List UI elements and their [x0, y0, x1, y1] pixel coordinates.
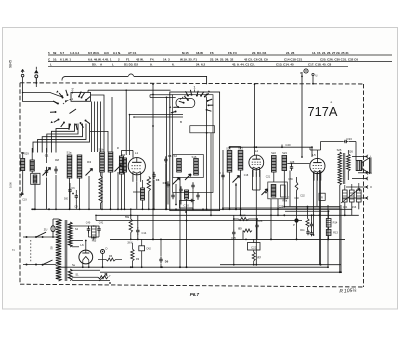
- svg-text:69: 69: [53, 51, 57, 55]
- boxres R13: [326, 230, 338, 236]
- svg-text:10.: 10.: [53, 58, 57, 62]
- band switch 2 rotary contacts: [50, 87, 91, 130]
- cap C32: [310, 231, 313, 236]
- band switch 1 rotary contacts: [169, 90, 213, 124]
- svg-text:F1: F1: [126, 58, 130, 62]
- speaker wires: [340, 150, 349, 272]
- AVC resistor tall: [99, 172, 102, 209]
- svg-text:R7: R7: [258, 256, 262, 260]
- svg-text:L6: L6: [80, 243, 84, 247]
- svg-text:S29: S29: [24, 153, 29, 156]
- svg-text:14. 3: 14. 3: [163, 58, 170, 62]
- coupling coil S29: [21, 152, 30, 194]
- parts table rule 2: [48, 61, 392, 63]
- avc wires: [233, 215, 258, 265]
- rectifier tube L6: [79, 240, 93, 268]
- svg-text:1000: 1000: [9, 182, 13, 188]
- svg-text:24. 6.2: 24. 6.2: [196, 62, 206, 66]
- terminal u top right: [304, 69, 318, 85]
- chassis dashed border right: [363, 84, 365, 287]
- svg-text:C17. C18. 45. C8: C17. C18. 45. C8: [308, 62, 332, 66]
- hum filter cap C41: [97, 222, 104, 234]
- chassis dashed border left: [19, 83, 21, 284]
- switch 2 wiring stair bundle: [33, 124, 90, 153]
- label P terminal: [300, 71, 302, 75]
- R9a box: [281, 185, 288, 203]
- coil S16: [192, 155, 199, 175]
- oscillator unit rounded box: [176, 98, 195, 107]
- resistor R5: [238, 228, 252, 233]
- resistor R9: [131, 243, 140, 267]
- osc cap C16: [196, 192, 199, 199]
- svg-text:C40: C40: [86, 222, 91, 225]
- svg-text:S1b: S1b: [99, 148, 104, 152]
- cap C31: [306, 230, 309, 235]
- svg-text:C36: C36: [288, 178, 293, 181]
- osc cap C15: [179, 186, 182, 193]
- svg-text:S1: S1: [75, 273, 79, 277]
- osc coil small: [185, 190, 189, 199]
- vt drops: [345, 183, 359, 215]
- osc trimmer 2: [185, 174, 191, 180]
- L5 top wire: [310, 147, 317, 158]
- L5 leg drops: [314, 172, 321, 265]
- svg-text:28.W: 28.W: [127, 243, 133, 245]
- terminal D: [101, 247, 108, 268]
- svg-text:S16: S16: [192, 155, 197, 159]
- resistor R11: [300, 219, 309, 233]
- coil S2a: [77, 155, 82, 209]
- hum filter wires: [89, 225, 100, 240]
- bus y239: [110, 238, 345, 240]
- transformer primary winding S: [50, 219, 62, 281]
- cap C6: [152, 172, 159, 210]
- long vertical x153: [152, 83, 154, 239]
- svg-text:S4: S4: [174, 154, 178, 158]
- svg-text:R 105¼: R 105¼: [339, 288, 357, 295]
- secondary taps: [72, 226, 110, 281]
- L1 cathode resistor R1: [137, 177, 151, 210]
- svg-text:F4.: F4.: [150, 58, 155, 62]
- parts table rule 3: [48, 65, 348, 67]
- boxres R14: [326, 219, 338, 228]
- svg-text:C: C: [117, 146, 119, 150]
- osc sub-box: [190, 126, 215, 133]
- resistor R2: [125, 215, 132, 233]
- svg-text:2: 2: [12, 249, 16, 251]
- oscillator shield box outer: [170, 92, 220, 211]
- transformer core lines: [65, 220, 67, 281]
- svg-text:R13: R13: [333, 231, 338, 235]
- svg-text:D6: D6: [165, 260, 169, 264]
- transformer secondary lower S1: [68, 269, 79, 281]
- label 5a: [72, 264, 75, 267]
- svg-text:C33: C33: [346, 137, 352, 141]
- coil S23: [282, 151, 287, 170]
- boxed coil S17: [31, 173, 40, 209]
- wire earth down: [35, 78, 37, 87]
- resistor box R16: [350, 190, 355, 202]
- L1 grid cap wire: [122, 150, 142, 192]
- pot P4 dot: [293, 218, 298, 227]
- svg-text:u: u: [316, 74, 318, 78]
- osc cap C11: [171, 193, 194, 202]
- svg-text:D: D: [106, 247, 108, 251]
- verticals x108 x112 x126: [90, 89, 127, 155]
- svg-text:S26: S26: [348, 150, 353, 154]
- svg-text:C29: C29: [279, 206, 284, 209]
- switch 1 label: [193, 85, 196, 92]
- svg-text:R15: R15: [92, 240, 97, 243]
- coil S3a: [99, 148, 105, 210]
- coil S3c: [121, 153, 126, 209]
- bus y209: [32, 208, 352, 210]
- svg-text:R12: R12: [285, 197, 290, 200]
- bus y264: [220, 264, 341, 266]
- label 28W: [127, 243, 133, 245]
- svg-text:42 W.: 42 W.: [136, 58, 144, 62]
- cap C28: [287, 161, 310, 171]
- bus y272: [100, 271, 341, 273]
- cap C8: [164, 154, 172, 209]
- svg-text:C26: C26: [258, 219, 263, 223]
- output terminal strip: [342, 155, 372, 200]
- svg-text:D1 D3. D2: D1 D3. D2: [124, 62, 138, 66]
- cap C26: [255, 219, 263, 229]
- svg-text:C42: C42: [146, 248, 151, 251]
- svg-text:C4: C4: [87, 160, 91, 164]
- speaker cone: [362, 158, 371, 174]
- coil S3b: [108, 152, 113, 209]
- osc vertical drops: [176, 178, 187, 268]
- transformer secondary upper S2: [68, 222, 78, 247]
- resistor R10: [239, 215, 249, 221]
- p4 wires: [296, 170, 330, 265]
- IF1 bracket: [230, 147, 241, 150]
- C14 cap left: [219, 171, 225, 180]
- tube L5: [310, 153, 325, 181]
- coil S16b: [21, 148, 35, 173]
- svg-text:C18: C18: [244, 174, 249, 177]
- svg-text:1.2.3.4: 1.2.3.4: [70, 51, 80, 55]
- svg-text:R6: R6: [109, 254, 113, 258]
- grid wire to L2: [254, 83, 256, 155]
- tube L1: [128, 151, 145, 182]
- svg-text:AT C1: AT C1: [128, 51, 137, 55]
- svg-text:9845: 9845: [9, 60, 13, 68]
- speaker voice coil: [356, 161, 362, 171]
- svg-text:9.1 N.: 9.1 N.: [113, 51, 121, 55]
- svg-text:C14 C18 C21: C14 C18 C21: [284, 58, 303, 62]
- drawing number R105: [339, 288, 357, 295]
- svg-text:ZU: ZU: [44, 228, 48, 232]
- wire switch1 drop: [206, 97, 208, 210]
- svg-text:B: B: [180, 120, 182, 124]
- cap C14b: [136, 227, 147, 235]
- svg-text:S25: S25: [337, 148, 342, 152]
- resistor R6 ps: [98, 254, 122, 261]
- svg-text:C21: C21: [266, 176, 271, 179]
- label 1000: [9, 182, 13, 188]
- svg-text:C6: C6: [156, 178, 160, 182]
- svg-text:L1: L1: [135, 151, 139, 155]
- model number 717A: [308, 102, 338, 120]
- svg-text:L2: L2: [255, 149, 259, 153]
- ground bus y267: [58, 266, 328, 268]
- osc stub wires: [168, 189, 193, 213]
- vertical x211: [210, 133, 212, 216]
- S24 trimmer: [262, 189, 268, 195]
- output transformer primary S25: [337, 148, 342, 185]
- coil S4: [174, 154, 182, 172]
- parts table row 3: [50, 62, 332, 66]
- svg-text:23. 24. 25. 26. 32: 23. 24. 25. 26. 32: [210, 58, 234, 62]
- cap D6: [159, 239, 168, 267]
- cap C33: [317, 137, 356, 161]
- svg-text:43. 9. 44. C1 C2.: 43. 9. 44. C1 C2.: [232, 62, 255, 66]
- wire switch2 to antenna: [22, 83, 64, 104]
- svg-text:R14: R14: [333, 221, 338, 225]
- resistor box R17: [357, 190, 362, 202]
- corner x328: [327, 205, 329, 267]
- svg-text:6.7: 6.7: [60, 51, 65, 55]
- svg-text:5M: 5M: [21, 151, 25, 155]
- svg-text:C: C: [219, 171, 221, 175]
- svg-text:9.: 9.: [150, 62, 153, 66]
- svg-text:8.5 W.N.: 8.5 W.N.: [88, 51, 100, 55]
- cathode cluster C6 500 C9: [64, 183, 78, 209]
- coil S20: [226, 147, 232, 173]
- bus y220: [95, 215, 302, 221]
- svg-text:C13: C13: [163, 181, 168, 185]
- svg-text:6 1.W. 1: 6 1.W. 1: [60, 58, 71, 62]
- box C10: [180, 201, 194, 209]
- svg-text:L: L: [50, 62, 52, 66]
- svg-text:717A: 717A: [308, 104, 338, 119]
- L2 leg drops: [253, 170, 261, 265]
- trimmer C5: [115, 165, 122, 210]
- IF1 trimmer: [233, 176, 240, 210]
- mains switch upper pole: [26, 232, 47, 238]
- svg-text:14. 15. 24. 26. 27 29. 25 31: 14. 15. 24. 26. 27 29. 25 31: [312, 51, 349, 55]
- box R17: [319, 193, 325, 200]
- sheet number 9845 vertical: [9, 60, 13, 68]
- coil S14 small: [141, 180, 145, 209]
- coil S13 left of L1: [117, 146, 124, 209]
- svg-text:C20: C20: [285, 143, 291, 147]
- wire top bus to switch1: [88, 90, 171, 92]
- svg-text:C13. C14. 45: C13. C14. 45: [276, 62, 294, 66]
- svg-text:C30: C30: [294, 197, 299, 200]
- svg-text:L: L: [112, 62, 114, 66]
- tone control arrow: [341, 189, 360, 204]
- svg-text:S8: S8: [50, 246, 54, 250]
- vertical to L1 top: [129, 114, 131, 155]
- border tap C19: [20, 192, 28, 201]
- svg-text:42 C5. C6 C8. C9: 42 C5. C6 C8. C9: [244, 58, 268, 62]
- svg-text:9.N: 9.N: [104, 51, 109, 55]
- svg-text:500: 500: [64, 198, 69, 201]
- output transformer secondary S26: [347, 150, 354, 172]
- svg-text:6.9. 49.W. 4.45. 1: 6.9. 49.W. 4.45. 1: [88, 58, 112, 62]
- svg-text:L5: L5: [312, 153, 316, 157]
- switch1 inner horizontals: [130, 115, 184, 118]
- cap C42 box: [139, 239, 152, 267]
- vertical x166: [166, 97, 168, 210]
- svg-text:S1a: S1a: [67, 151, 72, 155]
- oscillator shield box inner: [173, 95, 213, 193]
- hum filter cap C40: [86, 222, 91, 234]
- svg-text:M.15: M.15: [182, 51, 189, 55]
- svg-text:F8. F3: F8. F3: [228, 51, 237, 55]
- box C22: [248, 243, 261, 251]
- svg-text:C14: C14: [142, 231, 147, 235]
- coil S21: [238, 147, 243, 171]
- svg-text:C25. C26. C30 C31. C32 C6: C25. C26. C30 C31. C32 C6: [320, 58, 358, 62]
- antenna terminal A1: [21, 69, 24, 83]
- vertical x223: [222, 150, 224, 209]
- switch gang link: [30, 240, 32, 262]
- svg-text:22. D3. D4: 22. D3. D4: [252, 51, 267, 55]
- tube L2: [249, 149, 264, 177]
- coil S24: [271, 185, 276, 198]
- mains wire upper: [23, 236, 56, 238]
- labels R12 C29: [279, 195, 306, 209]
- svg-text:S2: S2: [75, 227, 79, 231]
- osc cap C17: [191, 182, 194, 189]
- IF1 drops: [230, 170, 241, 215]
- svg-text:˚: ˚: [331, 102, 333, 109]
- cap C2: [54, 158, 59, 209]
- C20 wire: [230, 143, 313, 157]
- svg-text:R16: R16: [352, 206, 357, 209]
- choke L7: [98, 274, 111, 282]
- fuse wires: [52, 219, 58, 238]
- cap C30: [294, 197, 313, 228]
- wire drop to L5 grid: [301, 72, 303, 157]
- vert x290: [289, 171, 291, 207]
- labels C21 C36: [244, 174, 294, 181]
- svg-text:C2: C2: [55, 158, 59, 162]
- svg-text:P: P: [293, 223, 295, 227]
- svg-text:C34: C34: [343, 206, 348, 209]
- aerial wire top run: [62, 74, 207, 84]
- svg-text:S22: S22: [271, 151, 276, 155]
- svg-text:C32: C32: [300, 195, 305, 198]
- coil S22: [271, 151, 276, 172]
- resistor R7: [252, 252, 261, 261]
- transformer core: [343, 153, 345, 184]
- mains label 2: [12, 249, 16, 251]
- trimmer C1: [43, 148, 51, 209]
- corner x341: [340, 205, 342, 272]
- S24 box: [268, 182, 288, 199]
- IF2 drops: [274, 171, 285, 207]
- chassis dashed border top: [20, 83, 364, 84]
- resistor box R15: [343, 190, 348, 202]
- svg-text:24. 26: 24. 26: [286, 51, 295, 55]
- parts table row 1: [48, 51, 349, 55]
- bottom mid verticals: [130, 208, 162, 268]
- svg-text:D5.: D5.: [92, 62, 97, 66]
- svg-text:L7: L7: [108, 274, 111, 278]
- earth terminal A2: [34, 67, 38, 84]
- S24 drops: [271, 199, 278, 240]
- svg-text:F6: F6: [210, 51, 214, 55]
- parts table rule 1: [48, 54, 392, 56]
- svg-text:C22: C22: [251, 245, 257, 249]
- svg-text:W.19. 25. F1: W.19. 25. F1: [180, 58, 197, 62]
- parts table row 2: [48, 58, 358, 62]
- vert x296 drop: [295, 177, 298, 219]
- osc cap C13: [163, 181, 170, 189]
- svg-text:18.W: 18.W: [196, 51, 203, 55]
- mains switch lower pole: [26, 260, 53, 266]
- hum filter resistor R15: [92, 226, 97, 243]
- trimmer C4: [86, 160, 93, 209]
- chassis dashed border bottom: [20, 284, 364, 287]
- svg-text:S23: S23: [282, 151, 287, 155]
- cap C25: [231, 230, 236, 240]
- svg-text:C41: C41: [99, 222, 104, 225]
- mains wire lower: [23, 264, 56, 266]
- figure label P6.7: [190, 292, 200, 297]
- svg-text:P6.7: P6.7: [190, 292, 200, 297]
- bus y215: [96, 214, 359, 216]
- coil S1a: [67, 151, 72, 210]
- switch 2 right drops: [91, 95, 105, 152]
- top horizontals to switch1: [150, 95, 176, 98]
- svg-text:6.: 6.: [172, 62, 175, 66]
- short buses right: [222, 207, 340, 212]
- osc coil box: [173, 155, 204, 178]
- svg-text:C19: C19: [22, 199, 27, 202]
- svg-text:R11: R11: [300, 229, 305, 232]
- osc trimmer 1: [173, 178, 180, 185]
- vt labels: [343, 206, 357, 209]
- fuse ZU: [44, 226, 55, 232]
